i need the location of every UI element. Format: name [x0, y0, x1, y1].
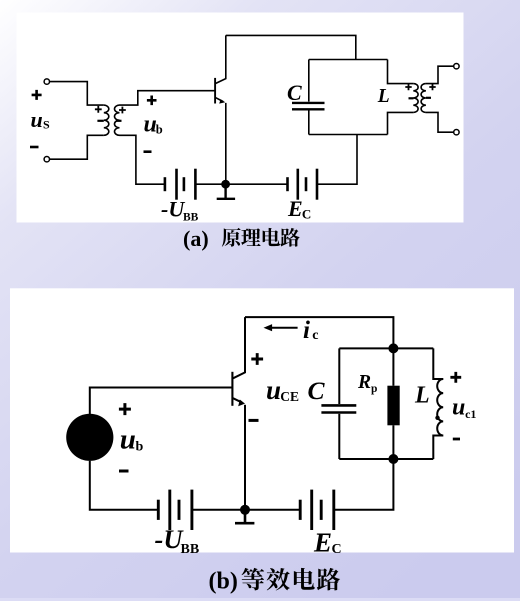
wire: tank top rail (b): [339, 347, 433, 349]
output terminal bottom-right (a): [454, 130, 459, 135]
svg-text:R: R: [357, 372, 371, 393]
wire: -UBB to EC through emitter node (b): [192, 509, 300, 511]
svg-text:u: u: [266, 375, 281, 405]
wire: tank to output transformer primary top (a): [388, 60, 414, 84]
arrow i_c (b): [271, 327, 298, 329]
- label of u_c1: [453, 438, 460, 441]
wire: emitter down to junction node (b): [244, 405, 246, 510]
inductor L branch bottom wire (b): [433, 436, 443, 460]
winding polarity dot on L (b): [435, 416, 439, 420]
wire: secondary bottom down to -UBB battery: [120, 135, 165, 184]
svg-text:BB: BB: [183, 212, 199, 224]
capacitor C branch bottom wire (b): [338, 414, 340, 459]
capacitor C plates (b): [321, 405, 356, 412]
polarity + mark on primary winding: [95, 106, 102, 113]
resistor Rp vertical leads (b): [392, 348, 394, 459]
svg-text:E: E: [287, 196, 303, 221]
wire: output secondary top to output terminal: [426, 66, 453, 83]
polarity + mark on output secondary: [429, 84, 435, 90]
resistor Rp filled body (b): [387, 386, 399, 426]
wire: EC to tank right vertical (b): [334, 459, 394, 510]
battery -UBB (a): [164, 177, 167, 191]
svg-text:b: b: [156, 123, 163, 137]
capacitor C branch top wire (a): [308, 60, 310, 102]
output terminal top-right (a): [454, 63, 459, 68]
wire: top-left terminal to input transformer primary top: [50, 82, 104, 106]
wire: tank bottom rail (a): [309, 134, 388, 136]
svg-text:C: C: [287, 80, 302, 105]
input terminal bottom-left (a): [44, 157, 49, 162]
svg-text:E: E: [313, 527, 332, 557]
+ label of u_CE: [251, 353, 263, 365]
svg-text:S: S: [43, 118, 50, 132]
capacitor C branch bottom wire (a): [308, 111, 310, 135]
junction node at emitter/ground (a): [221, 180, 230, 189]
inductor L: output transformer primary winding (a): [413, 84, 418, 113]
svg-text:C: C: [308, 376, 326, 405]
polarity - mark on secondary winding: [116, 120, 122, 122]
panel (a) white background: [17, 13, 464, 223]
- label of u_b: [144, 150, 152, 153]
wire: secondary top to transistor base: [120, 91, 215, 105]
wire: tank top rail (a): [309, 59, 388, 61]
battery EC (b): [299, 500, 302, 520]
inductor: input transformer primary winding (a): [104, 105, 109, 135]
panel (b) white background: [10, 288, 514, 552]
svg-text:c1: c1: [465, 407, 476, 421]
polarity + mark on secondary winding: [119, 107, 126, 114]
- label of u_b (b): [119, 470, 129, 473]
transistor Q collector (b): [233, 317, 245, 378]
+ label of u_c1: [450, 372, 461, 383]
capacitor C branch top wire (b): [338, 348, 340, 404]
polarity - mark on output secondary: [426, 97, 431, 99]
svg-text:-U: -U: [161, 197, 185, 222]
junction node tank bottom (b): [388, 454, 398, 464]
+ label of source u_S: [32, 90, 42, 100]
transistor Q emitter with arrow (b): [233, 398, 242, 402]
svg-text:C: C: [332, 542, 342, 557]
wire: emitter down to junction node (a): [225, 103, 227, 184]
transistor Q1 emitter with arrow (a): [216, 98, 224, 102]
- label of source u_S: [30, 146, 39, 149]
battery EC (a): [286, 177, 289, 191]
transistor Q1 collector (a): [216, 35, 226, 83]
wire: EC to tank bottom stub: [317, 135, 357, 185]
wire: tank bottom rail (b): [339, 458, 433, 460]
polarity - mark on output primary: [409, 97, 414, 99]
svg-text:u: u: [31, 107, 43, 132]
signal source u_b filled circle (b): [66, 414, 113, 461]
polarity + mark on output primary: [405, 84, 411, 90]
polarity - mark on primary winding: [97, 120, 103, 122]
svg-text:u: u: [120, 424, 136, 456]
wire: source top to transistor base (b): [90, 388, 232, 415]
ground symbol (b): [235, 510, 254, 523]
wire: -UBB to EC through emitter node: [195, 183, 287, 185]
wire: output transformer primary bottom to tank (a): [388, 112, 414, 134]
transistor Q base bar (b): [231, 372, 233, 406]
inductor: input transformer secondary winding (a): [114, 105, 119, 135]
svg-text:C: C: [302, 207, 311, 222]
transistor Q1 base bar (a): [214, 78, 216, 104]
+ label of u_b (b): [119, 403, 131, 415]
inductor: output transformer secondary winding (a): [421, 84, 426, 113]
wire: collector top rail to tank (a): [226, 35, 356, 59]
- label of u_CE: [249, 419, 259, 422]
svg-text:p: p: [371, 383, 377, 395]
inductor L winding (b): [437, 379, 443, 435]
svg-text:u: u: [452, 395, 465, 421]
inductor L branch top wire (b): [433, 348, 443, 379]
svg-text:i: i: [303, 317, 310, 344]
wire: source bottom to -UBB battery (b): [90, 461, 159, 510]
+ label of u_b: [147, 96, 157, 106]
wire: collector top rail (b): [245, 317, 393, 348]
svg-text:b: b: [136, 440, 144, 455]
capacitor C plates (a): [292, 103, 325, 109]
junction node at emitter/ground (b): [240, 505, 250, 515]
ground symbol (a): [217, 184, 235, 199]
svg-text:(a): (a): [183, 226, 209, 251]
input terminal top-left (a): [44, 79, 49, 84]
svg-text:CE: CE: [280, 389, 299, 404]
battery -UBB (b): [157, 500, 160, 520]
junction node tank top (b): [388, 343, 398, 353]
svg-text:L: L: [414, 383, 430, 409]
svg-text:c: c: [312, 328, 318, 343]
svg-text:BB: BB: [181, 542, 200, 557]
wire: output secondary bottom to output terminal: [426, 112, 453, 132]
svg-text:L: L: [377, 86, 390, 107]
wire: input transformer primary bottom to bottom-left terminal: [50, 135, 104, 159]
svg-text:(b): (b): [209, 569, 238, 595]
